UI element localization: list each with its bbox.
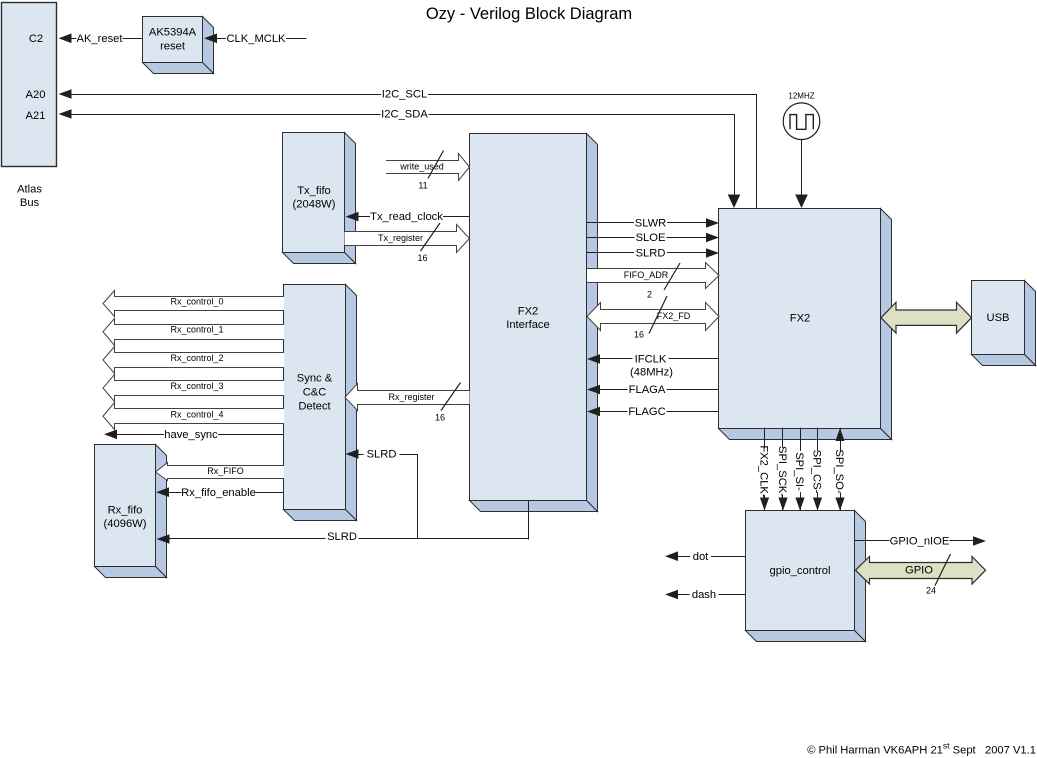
svg-text:Rx_control_1: Rx_control_1 xyxy=(170,325,223,335)
wire 12MHZ to FX2 xyxy=(795,140,808,209)
svg-text:Bus: Bus xyxy=(20,197,40,209)
wire AK_reset xyxy=(59,32,143,45)
svg-text:reset: reset xyxy=(160,41,186,53)
bus Tx_register (16) xyxy=(345,223,470,263)
svg-text:Rx_control_3: Rx_control_3 xyxy=(170,381,223,391)
block Tx_fifo (2048W) xyxy=(283,133,356,264)
wire IFCLK 48MHz xyxy=(587,353,719,379)
wire SLOE xyxy=(587,231,719,244)
svg-text:AK_reset: AK_reset xyxy=(76,33,123,45)
svg-text:Sync &: Sync & xyxy=(297,373,333,385)
svg-text:Tx_fifo: Tx_fifo xyxy=(297,185,331,197)
svg-text:16: 16 xyxy=(435,413,445,423)
block Atlas bus connector (C2/A20/A21) xyxy=(2,3,57,167)
svg-text:Rx_fifo: Rx_fifo xyxy=(108,505,143,517)
wire SLRD into Sync xyxy=(346,448,418,540)
svg-text:Detect: Detect xyxy=(298,401,331,413)
wire SPI_SI (SPI) xyxy=(793,428,805,511)
svg-text:FX2: FX2 xyxy=(518,306,539,318)
svg-text:gpio_control: gpio_control xyxy=(770,565,831,577)
svg-text:C2: C2 xyxy=(29,33,43,45)
bus FX2-USB xyxy=(881,302,972,333)
svg-text:FLAGA: FLAGA xyxy=(629,384,666,396)
bus GPIO (24) xyxy=(856,554,986,596)
svg-text:FX2_CLK-: FX2_CLK- xyxy=(758,445,770,498)
wire CLK_MCLK xyxy=(204,32,307,45)
label copyright xyxy=(807,741,1036,757)
title xyxy=(426,5,632,23)
svg-text:I2C_SDA: I2C_SDA xyxy=(381,109,428,121)
svg-text:have_sync: have_sync xyxy=(164,429,218,441)
svg-text:Interface: Interface xyxy=(506,319,550,331)
svg-text:SLOE: SLOE xyxy=(636,232,666,244)
bus FX2_FD (16) xyxy=(587,296,719,340)
svg-text:Rx_register: Rx_register xyxy=(388,392,434,402)
svg-text:SLRD: SLRD xyxy=(367,449,397,461)
bus Rx_control_1 xyxy=(103,319,284,346)
block AK5394A reset xyxy=(143,17,214,74)
svg-text:Rx_control_0: Rx_control_0 xyxy=(170,297,223,307)
svg-text:FIFO_ADR: FIFO_ADR xyxy=(624,270,669,280)
svg-text:A21: A21 xyxy=(26,110,46,122)
svg-text:16: 16 xyxy=(634,330,644,340)
svg-text:dot: dot xyxy=(693,551,709,563)
svg-text:Rx_control_2: Rx_control_2 xyxy=(170,353,223,363)
bus Rx_control_3 xyxy=(103,375,284,402)
block Rx_fifo (4096W) xyxy=(95,445,167,578)
svg-text:Rx_control_4: Rx_control_4 xyxy=(170,409,223,419)
wire FLAGA xyxy=(587,383,719,396)
block gpio_control xyxy=(746,511,866,642)
svg-text:SLRD: SLRD xyxy=(327,531,357,543)
bus FIFO_ADR (2) xyxy=(587,263,719,300)
wire SPI_SO (SPI) xyxy=(833,428,845,511)
bus Rx_control_2 xyxy=(103,347,284,374)
label Atlas Bus xyxy=(17,184,42,210)
svg-text:CLK_MCLK: CLK_MCLK xyxy=(226,33,286,45)
wire I2C_SCL xyxy=(59,87,758,208)
wire have_sync xyxy=(104,428,284,441)
svg-text:SPI_SI-: SPI_SI- xyxy=(793,452,805,491)
svg-text:IFCLK: IFCLK xyxy=(635,354,667,366)
svg-text:Rx_fifo_enable: Rx_fifo_enable xyxy=(181,487,256,499)
svg-text:FX2: FX2 xyxy=(790,313,811,325)
svg-text:SPI_SO-: SPI_SO- xyxy=(833,449,845,493)
wire SLWR xyxy=(587,217,719,230)
wire SPI_SCK (SPI) xyxy=(776,428,788,511)
bus write_used (11) xyxy=(386,151,470,191)
svg-text:Tx_register: Tx_register xyxy=(378,233,423,243)
svg-text:11: 11 xyxy=(418,181,427,191)
bus Rx_FIFO xyxy=(156,463,285,481)
bus Rx_register (16) xyxy=(345,383,470,423)
svg-text:A20: A20 xyxy=(26,89,46,101)
svg-text:Ozy - Verilog Block Diagram: Ozy - Verilog Block Diagram xyxy=(426,5,632,23)
svg-text:FX2_FD: FX2_FD xyxy=(657,311,691,321)
svg-text:(4096W): (4096W) xyxy=(104,518,147,530)
svg-text:I2C_SCL: I2C_SCL xyxy=(382,89,427,101)
block FX2 xyxy=(719,209,892,440)
svg-text:SLWR: SLWR xyxy=(635,218,667,230)
svg-text:(2048W): (2048W) xyxy=(293,199,336,211)
svg-text:dash: dash xyxy=(692,589,716,601)
svg-text:SPI_SCK-: SPI_SCK- xyxy=(776,446,788,497)
wire GPIO_nIOE xyxy=(855,535,986,548)
wire SLRD bottom to Rx_fifo xyxy=(157,501,529,544)
wire I2C_SDA xyxy=(59,107,741,208)
svg-text:USB: USB xyxy=(986,312,1009,324)
svg-text:Tx_read_clock: Tx_read_clock xyxy=(370,211,443,223)
wire FX2_CLK (SPI) xyxy=(758,428,770,511)
svg-text:GPIO_nIOE: GPIO_nIOE xyxy=(890,536,950,548)
svg-text:FLAGC: FLAGC xyxy=(628,406,665,418)
svg-text:2: 2 xyxy=(647,290,652,300)
svg-text:(48MHz): (48MHz) xyxy=(630,367,673,379)
wire SLRD to FX2 xyxy=(587,247,719,260)
svg-text:16: 16 xyxy=(417,253,427,263)
wire SPI_CS (SPI) xyxy=(811,428,823,511)
svg-text:Rx_FIFO: Rx_FIFO xyxy=(207,466,244,476)
svg-text:AK5394A: AK5394A xyxy=(149,27,197,39)
bus Rx_control_0 xyxy=(103,291,284,317)
svg-text:12MHZ: 12MHZ xyxy=(788,92,814,101)
block FX2 Interface xyxy=(470,134,598,512)
wire FLAGC xyxy=(587,405,719,418)
clock 12MHZ symbol xyxy=(783,92,820,140)
block Sync &amp; C&amp;C Detect xyxy=(284,285,357,521)
wire Tx_read_clock xyxy=(346,210,470,223)
svg-text:GPIO: GPIO xyxy=(905,564,933,576)
bus Rx_control_4 xyxy=(103,403,284,430)
svg-text:SLRD: SLRD xyxy=(636,248,666,260)
svg-text:C&C: C&C xyxy=(303,387,327,399)
svg-text:Atlas: Atlas xyxy=(17,184,42,196)
wire Rx_fifo_enable xyxy=(156,486,284,499)
svg-text:SPI_CS-: SPI_CS- xyxy=(811,450,823,494)
wire dot xyxy=(665,550,746,563)
block USB xyxy=(972,281,1036,366)
svg-text:24: 24 xyxy=(926,586,936,596)
wire dash xyxy=(665,588,746,601)
